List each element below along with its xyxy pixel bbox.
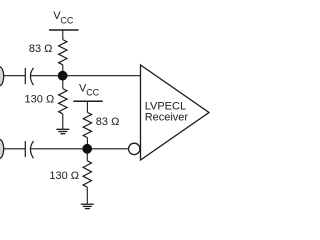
wire: VCC bar to resistor R1 <box>62 30 64 40</box>
node B (junction dot) <box>82 144 92 154</box>
svg-text:CC: CC <box>60 15 73 25</box>
node A (junction dot) <box>58 71 68 81</box>
resistor R2 130 ohm (zigzag) <box>59 89 67 114</box>
wire: C1 through node A to receiver input <box>31 75 141 77</box>
wire: R2 to ground <box>62 114 64 129</box>
input source A (clipped ellipse, left edge top) <box>0 67 4 86</box>
resistor R3 83 ohm (zigzag) <box>83 112 91 137</box>
wire: node A to resistor R2 <box>62 79 64 89</box>
ground GND1 (under R2) <box>56 129 69 133</box>
input source B (clipped ellipse, left edge bottom) <box>0 139 4 158</box>
svg-text:Receiver: Receiver <box>145 111 189 123</box>
wire: R1 to node A <box>62 65 64 72</box>
power rail VCC top (bar) <box>49 29 79 31</box>
resistor R4 130 ohm (zigzag) <box>83 161 91 187</box>
wire: C2 through node B to inversion bubble <box>31 148 129 150</box>
label VCC middle <box>79 82 100 97</box>
capacitor C2 <box>25 141 33 158</box>
svg-text:130 Ω: 130 Ω <box>49 170 79 182</box>
wire: source B to capacitor C2 <box>4 148 26 150</box>
ground GND2 (under R4) <box>81 204 94 208</box>
inversion bubble (inverting input of U1) <box>129 143 140 154</box>
wire: R4 to ground <box>86 187 88 204</box>
wire: R3 to node B <box>86 138 88 145</box>
svg-text:83 Ω: 83 Ω <box>96 116 120 128</box>
wire: source A to capacitor C1 <box>4 75 26 77</box>
svg-text:130 Ω: 130 Ω <box>25 94 55 106</box>
svg-text:CC: CC <box>86 88 99 98</box>
resistor R1 83 ohm (zigzag) <box>59 40 67 65</box>
power rail VCC middle (bar) <box>73 100 102 102</box>
wire: VCC middle bar to resistor R3 <box>86 101 88 112</box>
capacitor C1 <box>25 68 33 85</box>
svg-text:83 Ω: 83 Ω <box>29 43 53 55</box>
op-amp U1 LVPECL receiver (triangle) <box>141 65 210 160</box>
wire: node B to resistor R4 <box>86 152 88 161</box>
label VCC top <box>53 10 74 25</box>
